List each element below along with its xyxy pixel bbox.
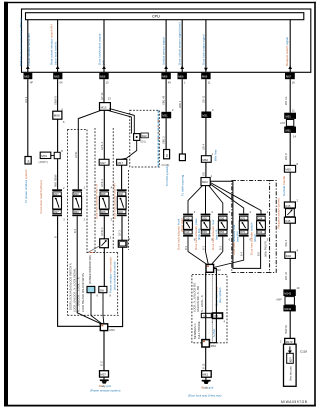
component name label R1 (red) [176,218,184,250]
svg-text:D56: D56 [219,230,224,234]
R group wire labels [184,241,268,257]
svg-text:Request switch signal: Request switch signal [285,37,289,66]
wire J mid segment [289,133,291,166]
lock knob switch symbol on L3 [88,239,108,253]
svg-text:D26: D26 [101,192,106,196]
svg-text:M66: M66 [178,75,184,79]
antenna component J1 body [280,120,294,127]
actuator R1 assembly [183,214,193,237]
ground connector right [202,371,212,378]
svg-text:LOCK...UNLOCK...N...LOCK SIGNA: LOCK...UNLOCK...N...LOCK SIGNAL [72,268,76,312]
svg-text:B: B [53,236,57,238]
svg-text:Key slot unit: Key slot unit [288,366,292,380]
svg-text:(JOINT): (JOINT) [39,160,48,164]
ground wire left [103,331,105,371]
joint square on wire B [51,149,63,159]
main switch CPU label (blue) [109,257,117,293]
fan wire splice to R3 [209,186,223,214]
svg-text:SB/L 49: SB/L 49 [162,95,166,105]
BCM connector terminal F [161,73,171,85]
svg-text:M170: M170 [286,340,293,344]
wire S2 right branch [209,268,216,342]
signal label wire C [98,33,106,65]
request switch body [286,209,295,217]
svg-text:ANT: ANT [280,121,286,125]
svg-text:GY 13: GY 13 [100,92,104,100]
dashed box text columns [192,283,222,339]
R4 ground diagonal [214,237,244,268]
request switch bottom connector [284,217,295,223]
svg-text:C118: C118 [300,349,307,353]
R1 ground diagonal [188,237,207,265]
svg-text:W/L 1A: W/L 1A [284,96,288,105]
svg-text:N....LOCK....N: N....LOCK....N [200,295,204,312]
key cylinder component in dashed box [134,134,140,141]
wire A lower segment [27,79,29,156]
svg-text:M17: M17 [118,161,124,165]
svg-text:W/L 4: W/L 4 [284,239,288,246]
direction arrows at BCM outputs [26,66,292,72]
svg-text:AMP: AMP [276,298,282,302]
svg-text:D56: D56 [219,216,224,220]
component name label R4 (red) [232,224,239,255]
wire C segment to L3 [103,165,105,189]
orange dash accent on dashed box [90,252,93,254]
BCM connector terminal B [53,73,63,85]
svg-text:D46: D46 [118,192,123,196]
wire H [205,20,207,73]
inline unit J3 body [276,297,294,305]
key cylinder output link [122,140,137,159]
svg-text:4F: 4F [30,80,33,84]
fan wire splice to R4 [210,184,244,214]
svg-text:LOCK SW AND UNLOCK SW ON: LOCK SW AND UNLOCK SW ON [81,273,85,312]
svg-text:LOCK...N...UNLOCK SIG: LOCK...N...UNLOCK SIG [192,283,196,312]
svg-text:D10: D10 [185,216,190,220]
with intelligent key dash-dot box [232,181,270,273]
splice S2 [206,264,221,272]
L3 wire to knob switch [103,216,105,239]
svg-text:D46: D46 [118,210,123,214]
dotted divider in dashed box [211,275,213,343]
svg-text:B 3: B 3 [219,246,223,250]
svg-text:B 6: B 6 [256,252,260,256]
svg-text:SB/W 8: SB/W 8 [54,96,58,105]
actuator R5 assembly [256,214,266,237]
terminal box D3 right [213,313,223,318]
dashed vertical right of L4 [128,170,130,250]
svg-text:N AND: N AND [212,329,216,337]
switch L4 assembly [117,189,127,216]
node A reference label [24,169,28,203]
power window main switch dashed box [67,253,119,316]
svg-text:Front door switch (driver): Front door switch (driver) [39,180,43,213]
inline unit J3 top connector [283,289,295,296]
wire B segment to M66 [57,79,59,111]
wire J segment 5 [289,311,291,338]
actuator R3 assembly [218,214,228,237]
svg-text:(door lock switch): (door lock switch) [53,42,57,65]
L4 wire to connector [121,216,123,240]
outer dash-dot edge [270,181,277,273]
svg-text:B 17: B 17 [100,360,104,366]
fan wire splice to R2 [205,186,207,214]
internal ground links of main switch [91,293,104,324]
ground name label left [90,384,121,392]
wire B segment to joint [57,119,59,152]
svg-text:M31: M31 [202,113,208,117]
actuator R2 assembly [201,214,211,237]
svg-text:M40: M40 [74,210,80,214]
ground wire right [205,347,207,371]
svg-text:M64: M64 [211,344,217,348]
wire F termination connector [162,150,170,167]
dashed enclosure top horizontal [67,129,87,131]
junction connector M13 on wire C [100,96,112,110]
svg-text:SW: SW [100,288,105,292]
svg-text:CPU: CPU [152,15,160,19]
R2 ground diagonal [206,237,209,265]
svg-text:M62: M62 [202,158,208,162]
connector on wire C [99,159,109,165]
wire A (bus to BCM connector) [27,20,29,73]
wire J segment 4 [289,258,291,289]
connector M31 on wire H [201,112,211,119]
double connector on L4 [118,240,127,247]
svg-text:M91: M91 [286,128,292,132]
ground connector left [100,371,109,377]
remote keyless connector [285,338,295,344]
svg-text:(all): (all) [101,61,105,65]
node A termination connector [25,157,31,165]
svg-text:Request switch (driver): Request switch (driver) [276,198,280,229]
svg-text:D15: D15 [285,219,290,223]
wire J segment 3 [289,223,291,252]
wire J segment to request switch [289,172,291,202]
wire H mid segment [205,118,207,156]
BCM connector terminal G [178,73,187,85]
svg-text:N......UNLOCK......LOCK......N: N......UNLOCK......LOCK......N [77,277,81,312]
fan wire straight C [103,110,105,159]
svg-text:D76: D76 [240,216,245,220]
component name label R3 (red) [211,219,218,250]
BCM connector M65 terminal A [24,73,34,85]
svg-text:(D/L): (D/L) [141,139,147,143]
svg-text:D14: D14 [258,216,263,220]
svg-text:B 4: B 4 [73,229,77,233]
wire C [103,20,105,73]
lock knob dashed box [130,110,160,167]
svg-text:(With PW) FR: (With PW) FR [264,241,268,257]
svg-text:W/L 10: W/L 10 [284,271,288,280]
svg-text:FULL STROKE: FULL STROKE [197,321,201,339]
wire B ground run [58,216,101,326]
svg-text:M40: M40 [74,192,80,196]
svg-text:To power window system: To power window system [24,169,28,203]
svg-text:D76: D76 [240,230,245,234]
connector M31 on wire F [161,112,171,119]
ground name label right [188,385,221,397]
lock knob dashed box blue edge [157,110,159,167]
svg-text:M65: M65 [54,75,60,79]
lock knob dashed box orange dashes [157,120,159,140]
svg-text:D36: D36 [202,230,207,234]
svg-text:GY/R 3: GY/R 3 [100,227,104,236]
component name label R2 (red) [194,218,201,250]
connector M66 on wire B [53,111,65,124]
svg-text:M24: M24 [202,180,208,184]
svg-text:M67: M67 [286,75,292,79]
svg-text:M66: M66 [202,75,208,79]
svg-text:Door lock actuator front: Door lock actuator front [176,219,180,250]
svg-text:B 13: B 13 [201,363,205,369]
connector M92 on wire J [284,165,295,172]
BCM connector terminal C [99,73,109,85]
ground symbol left [100,377,109,384]
svg-text:To CAN system: To CAN system [165,165,169,186]
svg-text:D10: D10 [185,230,190,234]
wire H segment to splice [205,162,207,177]
remote keyless entry receiver box [284,344,308,386]
wire G [181,20,183,73]
wire J [289,20,291,73]
joint connector box left of wire B [39,152,51,164]
svg-text:DOOR LOCK AND UNLOCK SWITCH N: DOOR LOCK AND UNLOCK SWITCH N [68,263,72,310]
misc pin labels [62,108,300,344]
wire B [57,20,59,73]
wire F segment [165,79,167,112]
svg-text:(Door lock sys) (I-key sys): (Door lock sys) (I-key sys) [188,393,221,397]
svg-text:M142: M142 [284,291,291,295]
svg-text:M66: M66 [100,75,106,79]
svg-text:Door lock output signal: Door lock output signal [201,34,205,65]
svg-text:BETWEEN N: BETWEEN N [193,323,197,339]
request switch top connector [284,202,295,208]
svg-text:With I-key: With I-key [213,149,217,161]
connector M62 on wire H [201,156,211,163]
wire F lower segment [165,118,167,149]
svg-text:GY 3: GY 3 [118,230,122,236]
splice S3 [202,340,217,348]
signal label wire B [50,24,58,65]
switch L2 assembly [72,189,82,216]
svg-text:W/R 1: W/R 1 [178,100,182,108]
svg-text:BCM (body control module) J/B: BCM (body control module) J/B fuse [19,17,23,66]
antenna component J1 bottom connector [284,127,296,139]
fan wire splice to R1 [188,186,203,214]
svg-text:M13: M13 [110,328,116,332]
svg-text:M57: M57 [101,373,107,377]
svg-text:Door lock actuator pass: Door lock actuator pass [194,218,198,250]
svg-text:Door lock/unlock output: Door lock/unlock output [98,33,102,65]
main switch internal text columns [68,255,92,312]
dashed vertical between L2 and L3 [94,128,96,253]
ground symbol right [202,377,211,384]
svg-text:Power window main switch: Power window main switch [109,257,113,293]
svg-text:Door lock actuator rear: Door lock actuator rear [232,224,236,255]
underfloor dashed box [192,275,227,343]
wire S2 to S3 [205,272,207,339]
svg-text:(Power window system): (Power window system) [90,389,121,393]
svg-text:Body gnd: Body gnd [99,384,111,388]
pin labels L row [63,186,131,241]
svg-text:Body gnd: Body gnd [202,385,214,389]
fan wire splice to R5 [210,183,261,214]
main switch terminal (encoder, teal) [87,286,95,292]
splice M204 [201,178,210,186]
svg-text:SB/L 2: SB/L 2 [162,136,166,144]
splice S1 on ground bus [100,324,115,332]
svg-text:W/L 8: W/L 8 [284,153,288,160]
svg-text:B 3: B 3 [184,246,188,250]
svg-text:(rear LH): (rear LH) [215,229,219,240]
svg-text:Door unlock sensor signal (rea: Door unlock sensor signal (rear) [178,22,182,65]
wire F [165,20,167,73]
L3 wire into main switch [103,248,105,287]
switch L3 assembly [99,189,109,216]
svg-text:(POWER WINDOW SW): (POWER WINDOW SW) [88,255,92,284]
connector D2 on wire J [285,252,296,258]
dashed enclosure mid vertical [86,130,88,253]
svg-text:M13: M13 [101,105,107,109]
svg-text:B/W 52: B/W 52 [284,324,288,333]
svg-text:D13: D13 [142,134,147,138]
antenna component J1 top connector [284,109,296,119]
svg-text:M66: M66 [162,75,168,79]
svg-text:Door lock actuator rear: Door lock actuator rear [211,219,215,250]
svg-text:GR: GR [202,172,206,176]
svg-text:B 3: B 3 [201,246,205,250]
svg-text:GR 4: GR 4 [202,143,206,150]
CPU bus bar [26,13,304,20]
svg-text:M65: M65 [24,75,30,79]
BCM connector terminal J [285,73,295,85]
svg-text:M17: M17 [54,192,60,196]
svg-text:GY/R: GY/R [74,152,78,158]
connector on L4 feeder [117,159,127,165]
svg-text:D15: D15 [285,204,290,208]
wire J segment [289,79,291,113]
switch L1 assembly [52,186,65,216]
inline unit J3 bottom connector [283,305,295,311]
fan wires to lock knob box [108,109,135,134]
main switch terminal (white) [99,286,107,292]
svg-text:M142: M142 [284,307,291,311]
svg-text:D02: D02 [286,254,292,258]
svg-text:D26: D26 [101,210,106,214]
wire B segment to switch L1 [57,159,59,190]
L4 ground run [108,247,123,326]
svg-text:M31: M31 [162,114,168,118]
svg-text:MIWA0597GB: MIWA0597GB [281,400,308,404]
svg-text:M61: M61 [203,373,209,377]
actuator R4 assembly [239,214,249,237]
svg-text:1A: 1A [292,80,295,84]
svg-text:B 4: B 4 [240,252,244,256]
svg-text:GY/L 4: GY/L 4 [100,141,104,150]
svg-text:GR 11: GR 11 [202,95,206,103]
svg-text:(front RH): (front RH) [197,228,201,240]
R3 ground diagonal [212,237,223,265]
fan wire to L2 [78,110,101,189]
wire H segment [205,79,207,111]
svg-text:M17: M17 [100,161,106,165]
svg-text:(door lock/unlock switch): (door lock/unlock switch) [112,261,116,290]
svg-text:GY/L 4: GY/L 4 [100,178,104,187]
wire J note (blue) [282,175,286,196]
svg-text:KEY: KEY [289,357,293,362]
svg-text:D14: D14 [258,230,263,234]
svg-text:Unlock sensor signal: Unlock sensor signal [162,37,166,65]
svg-text:(key cylinder): (key cylinder) [218,287,222,303]
svg-text:UNLOCK SW...N...SW: UNLOCK SW...N...SW [196,286,200,312]
key cylinder label box [141,133,149,143]
svg-text:M70: M70 [41,154,47,158]
svg-text:Outside handle: Outside handle [282,175,286,196]
wire G lower segment [181,79,183,154]
L4 feeder wire segment [121,165,123,189]
svg-text:M17: M17 [54,210,60,214]
component name label R5 (red) [249,222,256,255]
feed line splice to R5 detour [210,181,260,268]
BCM connector terminal H [201,73,211,85]
terminal box D3 left [201,313,211,318]
dashed enclosure left vertical [66,130,68,316]
svg-text:M66: M66 [54,114,60,118]
wire C segment to junction [103,79,105,102]
pin labels R row [194,210,269,241]
svg-text:To theft warning: To theft warning [181,174,185,196]
svg-text:D36: D36 [202,216,207,220]
dashed vertical between L3 and L4 [112,128,114,250]
svg-text:M91: M91 [286,114,292,118]
BCM unit box [22,9,311,72]
svg-text:M92: M92 [285,168,291,172]
svg-text:O/L 2: O/L 2 [24,96,28,103]
L2 ground wire [77,216,101,324]
svg-text:M66 SB/W: M66 SB/W [53,174,57,187]
wire G termination connector [179,154,185,161]
